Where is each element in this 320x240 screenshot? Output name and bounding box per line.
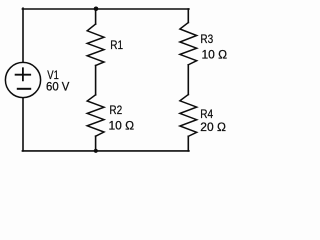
wire right branch upper — [187, 9, 189, 23]
resistor R4 — [180, 95, 197, 137]
resistor R2 — [87, 95, 104, 136]
svg-text:R4: R4 — [200, 107, 213, 121]
wire left upper (source to top rail) — [22, 8, 24, 62]
wire bottom-left segment — [22, 150, 95, 152]
wire top-left segment — [22, 8, 95, 10]
wire left lower (source to bottom rail) — [22, 98, 24, 151]
junction node bottom (middle branch / bottom rail) — [94, 149, 98, 153]
wire right branch lower — [187, 136, 189, 151]
voltage source plus sign — [16, 68, 31, 80]
resistor R3 — [180, 23, 197, 65]
wire right branch between R3 and R4 — [187, 65, 189, 95]
svg-text:R1: R1 — [110, 38, 123, 52]
svg-text:20 Ω: 20 Ω — [200, 120, 226, 134]
voltage source minus sign — [18, 88, 30, 90]
svg-text:R2: R2 — [109, 103, 122, 117]
resistor R1 — [87, 24, 104, 66]
junction node top (middle branch / top rail) — [94, 7, 99, 12]
wire middle branch lower — [95, 136, 97, 151]
wire bottom-right segment — [96, 150, 189, 152]
svg-text:10 Ω: 10 Ω — [109, 119, 135, 133]
svg-text:10 Ω: 10 Ω — [202, 47, 228, 61]
svg-text:60 V: 60 V — [46, 79, 69, 93]
svg-text:R3: R3 — [200, 32, 213, 46]
wire middle branch between R1 and R2 — [95, 66, 97, 95]
wire top-right segment — [96, 8, 189, 10]
wire middle branch upper — [95, 9, 97, 24]
voltage source V1 circle — [5, 62, 40, 97]
